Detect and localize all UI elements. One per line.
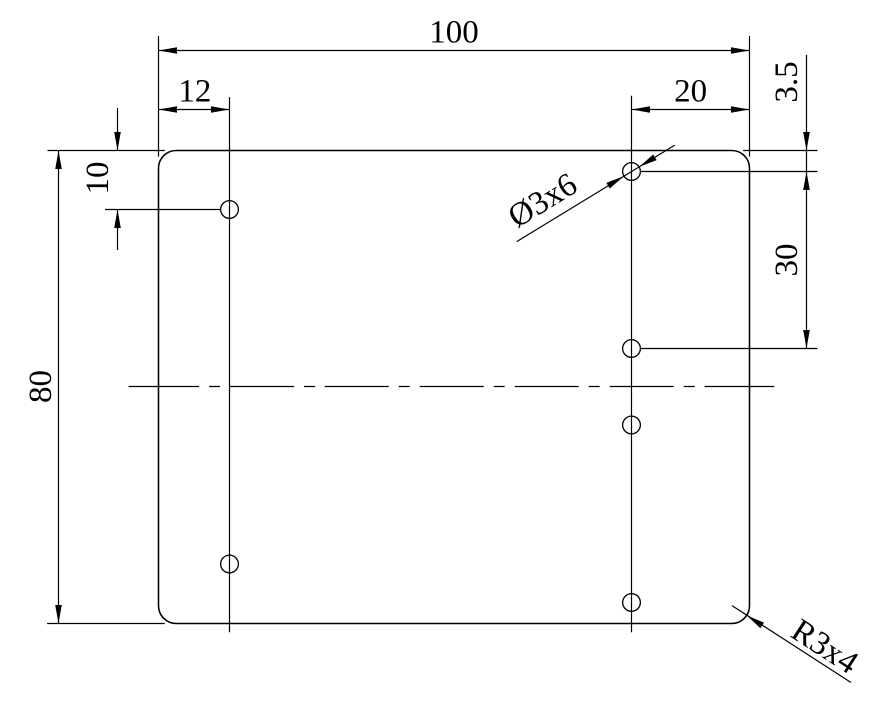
hole R3 xyxy=(623,416,641,434)
hole column line left xyxy=(229,97,231,632)
svg-text:100: 100 xyxy=(429,15,479,51)
extension line plate right edge up xyxy=(749,36,751,157)
svg-text:12: 12 xyxy=(178,74,211,110)
extension line top edge left xyxy=(48,150,165,152)
extension line hole R1 center xyxy=(640,171,817,173)
extension line hole R2 center xyxy=(640,348,817,350)
extension line plate left edge up xyxy=(158,36,160,157)
hole L1 xyxy=(221,201,239,219)
hole L2 xyxy=(221,555,239,573)
hole column line right xyxy=(631,96,633,633)
extension line bottom edge left xyxy=(47,623,165,625)
hole R2 xyxy=(623,340,641,358)
dimension 10 xyxy=(80,108,121,250)
hole R4 xyxy=(623,594,641,612)
svg-text:10: 10 xyxy=(80,162,116,195)
leader diameter 3x6 xyxy=(502,145,675,242)
dimension 80 xyxy=(23,151,62,624)
leader radius R3x4 xyxy=(732,606,864,683)
svg-text:3.5: 3.5 xyxy=(769,61,805,102)
svg-text:80: 80 xyxy=(23,370,59,403)
centerline xyxy=(129,386,775,388)
svg-text:20: 20 xyxy=(674,74,707,110)
plate outline xyxy=(159,151,750,624)
dimension 20 xyxy=(632,74,750,113)
dimension 12 xyxy=(159,74,230,113)
svg-text:30: 30 xyxy=(769,244,805,277)
hole R1 xyxy=(623,163,641,181)
dimension 30 xyxy=(769,244,810,349)
extension line top edge right xyxy=(743,150,817,152)
extension line hole L1 center xyxy=(105,209,221,211)
dimension 3.5 xyxy=(769,55,810,349)
dimension 100 xyxy=(159,15,750,54)
